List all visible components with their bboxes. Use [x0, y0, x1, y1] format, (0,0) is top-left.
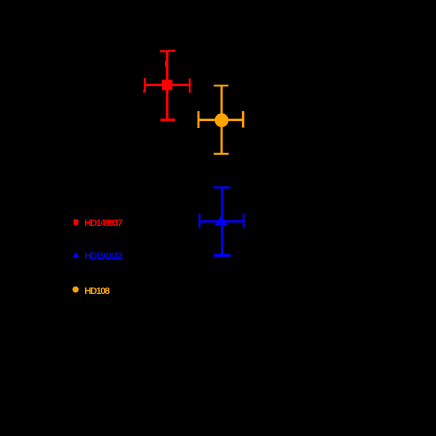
vertical error line — [221, 188, 223, 255]
svg-text:HD148937: HD148937 — [84, 218, 122, 229]
legend marker HD108 (orange circle) — [73, 286, 79, 292]
left cap — [197, 111, 199, 128]
vertical line left bump (overlapping second error bar) — [165, 61, 166, 68]
horizontal error line — [199, 119, 244, 121]
data point HD108 (orange circle with error bars) — [197, 85, 244, 155]
left cap — [144, 78, 146, 93]
vertical error line — [166, 51, 169, 120]
horizontal error line — [145, 84, 191, 86]
circle symbol — [215, 113, 229, 127]
triangle bottom-left step — [215, 224, 218, 226]
top cap — [214, 186, 231, 188]
legend marker HD191612 (blue triangle) — [72, 252, 79, 258]
horizontal error line — [199, 220, 244, 222]
data point HD148937 (red square with error bars) — [143, 50, 190, 121]
svg-text:HD108: HD108 — [84, 286, 109, 297]
triangle symbol — [215, 215, 228, 225]
left cap lower bump — [143, 90, 144, 93]
top cap right part — [168, 50, 176, 52]
right cap — [243, 214, 245, 229]
bottom cap — [160, 119, 175, 122]
top cap left part — [160, 50, 169, 52]
top cap — [214, 85, 229, 87]
legend marker HD148937 (red square) — [74, 219, 79, 225]
bottom cap — [214, 254, 231, 257]
right cap — [242, 111, 244, 128]
right cap — [189, 78, 191, 92]
data point HD191612 (blue triangle with error bars) — [199, 186, 245, 256]
left cap — [199, 214, 201, 229]
bottom cap — [214, 153, 229, 155]
vertical error line — [221, 86, 223, 154]
square symbol — [162, 80, 173, 91]
svg-text:HD191612: HD191612 — [84, 251, 122, 262]
